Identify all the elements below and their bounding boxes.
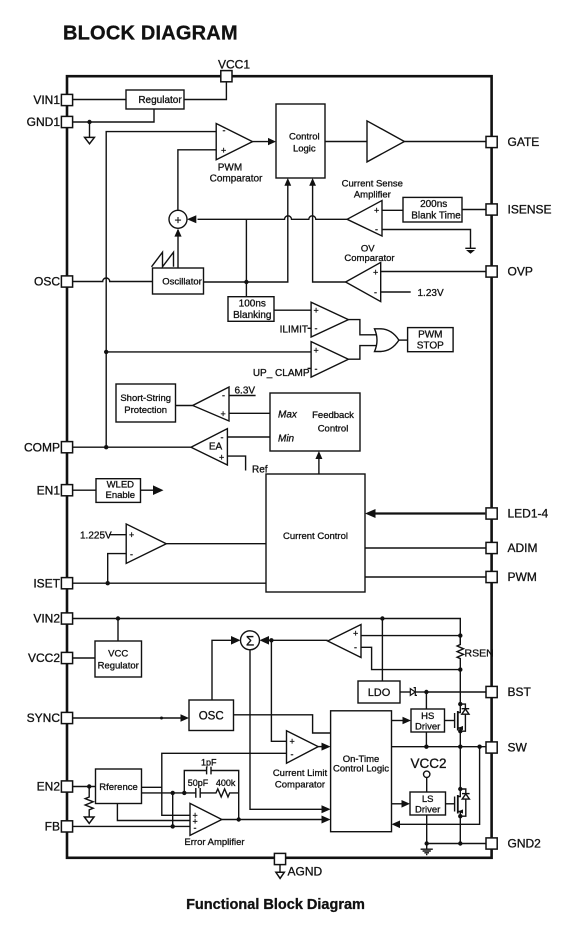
diode LS body diode [460,789,469,816]
block Feedback Control [270,393,360,451]
wire LS driver bottom to ground [426,815,428,849]
svg-text:Current Limit: Current Limit [273,768,328,779]
svg-text:+: + [290,736,295,746]
svg-text:Control Logic: Control Logic [333,764,389,775]
svg-text:+: + [374,206,379,216]
svg-text:VIN2: VIN2 [33,612,60,626]
svg-text:+: + [219,453,224,463]
pin GND2 [486,837,541,851]
node comp row junction left [171,791,175,795]
node ISET junction [106,581,110,585]
summer sigma [241,631,260,650]
wire Rference to CLC minus [142,753,287,787]
svg-text:-: - [354,642,357,652]
svg-text:50pF: 50pF [188,778,209,788]
svg-text:-: - [194,823,197,833]
node FB junction [171,824,175,828]
block Current Control [266,474,365,592]
wire current control to feedback control [318,458,320,474]
svg-text:EA: EA [209,441,223,452]
svg-text:-: - [130,549,133,559]
label UP_CLAMP [253,368,311,379]
wire PWM comparator plus input from summer [178,150,216,211]
wire LS source to GND2 row [459,816,461,843]
summer node (+) [169,210,187,228]
wire UP_CLAMP output to OR gate [348,346,376,360]
wire OR gate to PWM STOP [399,339,408,341]
wire RSEN to HS drain [459,670,461,705]
buffer GATE driver [367,121,404,162]
svg-text:EN1: EN1 [37,483,61,497]
svg-text:1pF: 1pF [201,757,217,767]
pin LED1-4 [486,507,549,521]
svg-text:Regulator: Regulator [98,661,139,672]
wire WLED enable output arrow [141,489,155,491]
svg-text:GND1: GND1 [27,115,61,129]
svg-text:ISET: ISET [33,576,60,590]
op-amp EA [191,429,227,465]
svg-text:OSC: OSC [199,710,224,722]
wire summer input from oscillator (arrow up) [174,229,181,237]
svg-text:-: - [222,391,225,401]
wire 1.225V to comparator plus [109,534,126,536]
svg-text:HS: HS [421,711,434,722]
wire error amp input2 from Rference bottom [117,804,190,821]
pin GND1 [27,115,73,129]
block Rference [96,769,142,804]
pin VCC2 [28,651,73,665]
svg-text:+: + [373,268,378,278]
node VIN2 junction VCC regulator [116,616,120,620]
wire diode to BST pin [426,691,486,693]
pin ISENSE [486,203,552,217]
svg-text:-: - [223,126,226,136]
svg-text:PWM: PWM [418,330,442,341]
wire SW row from OTCL to SW pin [392,746,487,748]
svg-text:SYNC: SYNC [27,711,61,725]
svg-text:ISENSE: ISENSE [508,203,552,217]
node HS drain junction [458,702,462,706]
svg-text:1.23V: 1.23V [418,288,444,299]
op-amp 1.225V comparator [126,524,166,563]
node SW junction MOSFET [458,745,462,749]
wire sigma output to on-time control logic [250,650,322,810]
node RSEN bottom junction [458,667,462,671]
svg-text:RSEN: RSEN [465,647,494,659]
svg-text:Enable: Enable [106,490,136,501]
wire OSC pin to oscillator (hops over vertical) [73,278,153,282]
svg-text:Min: Min [278,434,295,445]
svg-text:ILIMIT: ILIMIT [280,324,308,335]
capacitor 50pF [188,778,209,798]
resistor RSEN [457,636,463,670]
svg-text:Error Amplifier: Error Amplifier [184,837,244,848]
wire control logic to gate buffer [325,141,367,143]
label ILIMIT [280,324,311,335]
wire ISENSE to 200ns block [462,209,486,211]
svg-text:BST: BST [508,685,532,699]
pin VCC1 (top) [218,58,250,82]
node RSEN top junction [458,633,462,637]
svg-text:STOP: STOP [417,341,444,352]
svg-text:VCC1: VCC1 [218,58,250,72]
wire LED1-4 to current control (thick arrow) [374,512,485,514]
svg-text:Blank Time: Blank Time [411,210,461,221]
wire ILIMIT output to OR gate [348,320,376,335]
svg-text:VCC2: VCC2 [410,756,446,771]
node error amp feedback junction [237,817,241,821]
wire Rference out2 to compensation row [142,789,239,797]
svg-text:-: - [375,225,378,235]
wire CLC output to OTCL (arrow) [318,746,322,748]
svg-text:+: + [174,213,181,227]
node LS source junction [458,814,462,818]
svg-text:Regulator: Regulator [138,95,182,106]
ground AGND [276,865,284,879]
pin BST [486,685,532,699]
wire amp minus to RSEN bottom [361,647,460,669]
svg-text:LS: LS [422,794,434,805]
wire COMP pin to EA output [73,446,191,448]
ground EN2 pulldown [84,817,94,823]
pin EN1 [37,483,73,497]
pin AGND (bottom) [274,853,322,878]
pin OSC [34,275,73,289]
block 100ns Blanking [228,297,274,322]
wire GND1 [73,109,154,122]
pin VIN2 [33,612,72,626]
diode HS body diode [460,704,469,731]
node SYNC tick [160,717,163,720]
svg-text:-: - [315,324,318,334]
resistor EN2 pulldown [85,787,93,817]
svg-text:Σ: Σ [246,633,254,648]
node BST junction HS driver [424,690,428,694]
svg-text:WLED: WLED [107,480,135,491]
svg-text:+: + [221,409,226,419]
svg-text:+: + [221,145,226,155]
svg-text:Feedback: Feedback [312,410,354,421]
node HS source junction [458,729,462,733]
svg-text:OVP: OVP [508,265,533,279]
wire FB pin to error amplifier [73,825,190,827]
wire current sense to summer (hops over verticals) [198,216,348,219]
svg-text:BLOCK DIAGRAM: BLOCK DIAGRAM [63,23,238,45]
pin PWM [486,570,537,584]
svg-text:GATE: GATE [508,135,540,149]
capacitor C1 1pF loop [184,757,238,819]
wire junction to current limit comparator plus [271,640,286,741]
svg-text:Blanking: Blanking [233,310,271,321]
pin VIN1 [33,93,72,107]
control logic U2 [276,104,325,178]
wire OV comparator minus 1.23V [381,291,411,293]
block WLED Enable [96,479,141,503]
svg-text:400k: 400k [216,778,236,788]
block PWM STOP [408,328,454,352]
svg-text:Max: Max [278,410,298,421]
svg-text:Short-String: Short-String [120,393,171,404]
svg-text:Logic: Logic [293,144,316,155]
wire VIN2 to VCC regulator [117,619,119,642]
wire sense amp output to sigma (arrow left) [269,639,328,641]
block Short-String Protection [116,384,176,422]
pin GATE [486,135,539,149]
wire SSP plus to feedback Max [229,412,270,414]
node GND2 junction LS driver [425,841,429,845]
op-amp Current Limit Comparator [273,731,328,791]
svg-text:+: + [314,305,319,315]
wire UP_CLAMP plus from COMP vertical [106,351,311,353]
svg-text:ADIM: ADIM [508,541,538,555]
main block border [67,76,492,858]
svg-text:Control: Control [289,132,320,143]
wire OTCL to LS driver (arrow) [392,803,403,805]
pin OVP [486,265,533,279]
wire OTCL to HS driver (arrow) [392,720,404,722]
wire PWM comparator minus input [106,132,216,448]
node sigma input junction [269,638,273,642]
sawtooth symbol [152,252,174,267]
wire 6.3V to SSP minus [229,395,256,397]
block VCC Regulator [95,641,142,677]
svg-text:VCC2: VCC2 [28,651,60,665]
transistor Q2 LS MOSFET [455,789,463,816]
wire ISET pin to current control [73,582,266,584]
svg-text:Current Control: Current Control [283,531,348,542]
regulator U1 [126,90,184,109]
svg-text:FB: FB [45,820,60,834]
wire PWM comparator output to control logic [253,141,270,143]
wire EN1 to WLED enable [73,489,96,491]
transistor Q1 HS MOSFET [455,704,463,731]
svg-text:LED1-4: LED1-4 [508,507,549,521]
svg-text:100ns: 100ns [239,299,266,310]
node VIN2 junction LDO [380,616,384,620]
op-amp PWM Comparator [210,124,263,185]
wire error amp output to OTCL (arrow) [222,819,322,821]
wire GND2 row to pin [427,843,486,845]
wire LDO input from VIN2 [381,619,383,682]
svg-text:VCC: VCC [108,649,128,660]
svg-text:UP_ CLAMP: UP_ CLAMP [253,368,310,379]
node comp row junction 1pF [182,791,186,795]
wire amp plus to RSEN top [361,635,460,637]
wire oscillator to control logic vertical A [204,185,288,282]
wire VCC2 to LS driver [426,778,428,793]
svg-text:Driver: Driver [415,805,440,816]
wire SSP comparator to box [176,405,193,407]
svg-text:Oscillator: Oscillator [162,277,202,288]
svg-text:Current Sense: Current Sense [342,179,403,190]
OR gate [375,329,399,352]
wire gate buffer to GATE pin [404,141,486,143]
node blanking tap [245,219,247,296]
svg-text:-: - [291,750,294,760]
wire error amp input1 from Rference out1 [162,787,190,815]
wire 200ns block to CS amp plus [382,209,403,211]
wire OV comparator output to control logic vertical B [313,185,346,282]
svg-text:Rference: Rference [99,782,138,793]
wire 1.225V comparator output to current control [166,543,266,545]
svg-text:Control: Control [318,424,349,435]
pin EN2 [37,780,73,794]
svg-text:-: - [315,364,318,374]
block LS Driver [410,792,446,816]
wire EA plus Ref [227,456,245,470]
wire SW feedback loop to OTCL (arrow left) [399,747,480,825]
node GND2 junction MOSFET [458,841,462,845]
svg-text:-: - [374,288,377,298]
wire HS source to SW row [459,731,461,747]
svg-text:PWM: PWM [218,163,242,174]
pin ISET [33,576,72,590]
pin ADIM [486,541,538,555]
pin SW [486,741,528,755]
oscillator U3 [153,268,204,294]
wire CS amp minus to ground [382,230,471,249]
svg-text:PWM: PWM [508,570,537,584]
svg-text:GND2: GND2 [508,837,542,851]
svg-text:Amplifier: Amplifier [354,190,391,201]
wire EA minus to feedback Min [227,436,270,438]
wire VIN2 rail [73,619,461,645]
svg-text:200ns: 200ns [420,199,447,210]
op-amp current sense RSEN amplifier [328,625,361,658]
wire HS driver bottom to SW row [425,732,427,747]
node SW junction HS driver return [424,745,428,749]
pin SYNC [27,711,73,725]
svg-text:+: + [353,629,358,639]
wire regulator to VCC1 [184,82,226,100]
ground GND1 [85,122,95,144]
node SW junction feedback loop [477,745,481,749]
node EN2 junction [87,784,91,788]
wire FB tap vertical [172,793,174,827]
wire current control to ADIM [365,547,486,549]
diode D1 bootstrap [400,688,426,696]
op-amp Current Sense Amplifier [342,179,403,236]
wire HS driver to HS gate [445,720,455,722]
op-amp short-string comparator [193,387,229,421]
wire EN2 to Rference [73,786,96,788]
terminal VCC2 circle [424,771,430,777]
block HS Driver [411,709,445,733]
svg-text:1.225V: 1.225V [80,531,112,542]
block On-Time Control Logic [331,711,392,832]
wire current control to PWM [365,576,486,578]
svg-text:COMP: COMP [24,440,60,454]
ground power ground [421,849,433,854]
svg-text:+: + [129,530,134,540]
svg-text:Comparator: Comparator [275,780,325,791]
svg-text:+: + [314,345,319,355]
block LDO [358,681,400,703]
wire OVP pin to OV comparator plus [381,271,486,273]
pin FB [45,820,73,834]
node oscillator junction [244,280,248,284]
block OSC [189,700,234,731]
wire SW to LS drain [459,747,461,789]
pin COMP [24,440,73,454]
wire oscillator OSC to sigma (arrow right) [212,640,232,700]
op-amp OV Comparator [344,243,394,301]
node GND1 junction [87,120,91,124]
svg-text:Protection: Protection [124,405,167,416]
svg-text:Driver: Driver [415,722,440,733]
ground ISENSE return [465,248,475,254]
op-amp Error Amplifier [184,803,244,848]
svg-text:VIN1: VIN1 [33,93,60,107]
svg-text:Comparator: Comparator [210,173,263,184]
svg-text:LDO: LDO [368,687,391,699]
wire LS driver to LS gate [446,803,455,805]
svg-text:SW: SW [508,741,528,755]
node COMP junction [104,445,108,449]
wire SYNC to OSC (arrow) [73,717,182,719]
svg-text:6.3V: 6.3V [235,386,256,397]
wire VIN1 to regulator [73,99,126,101]
wire 100ns to ILIMIT comparator plus [274,309,311,311]
node UP_CLAMP junction [104,350,108,354]
svg-text:OSC: OSC [34,275,60,289]
svg-text:EN2: EN2 [37,780,61,794]
wire VCC2 pin to VCC regulator [73,657,95,659]
svg-text:Comparator: Comparator [344,253,394,264]
svg-text:Functional Block Diagram: Functional Block Diagram [186,897,365,913]
op-amp UP_CLAMP comparator [311,342,348,378]
wire BST junction to HS driver [425,692,427,709]
block 200ns Blank Time [403,197,462,222]
svg-text:AGND: AGND [288,865,323,879]
op-amp ILIMIT comparator [311,302,348,337]
node LS drain junction [458,787,462,791]
wire comparator minus to ISET [108,554,127,584]
wire OSC output to OTCL [234,715,331,733]
